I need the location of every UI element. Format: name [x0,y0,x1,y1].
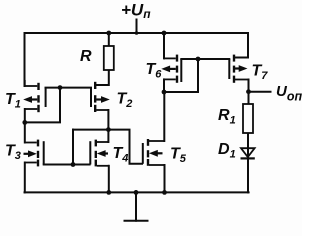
transistor T1 [23,80,45,112]
wire gate node down to T1 source node [25,88,60,123]
wire top rail +Un [25,32,249,34]
wire T3-T4 gate line [44,164,90,166]
wire T7 source down to output node [248,80,250,105]
node dot mirror T2 source [106,127,111,132]
wire T1-T2 gate line [46,87,92,89]
svg-text:T3: T3 [5,143,21,163]
svg-text:T5: T5 [170,146,187,166]
svg-text:R: R [80,48,92,65]
node dot ground rail [134,190,139,195]
wire T6 source down to node [163,79,165,92]
node dot T1 source column [22,120,27,125]
wire T5 source down to bottom rail [164,165,166,192]
wire T3 source down to bottom rail [24,163,26,193]
transistor T2 [91,82,110,112]
transistor T5 [143,139,165,166]
wire left rail [24,33,26,86]
wire gate riser [197,59,199,92]
wire gate line up to mirror node [72,130,74,165]
svg-text:T4: T4 [113,145,129,165]
node dot T5 source rail [162,190,167,195]
node dot R top [106,31,111,36]
transistor T3 [24,140,44,167]
wire T1 source to T3 drain [24,109,26,143]
wire T6 node to gate riser [164,91,198,93]
node dot T6 rail [162,31,167,36]
wire mirror node to T5 gate [73,130,142,164]
wire T5 drain up to T6 node [163,92,165,141]
svg-text:T2: T2 [117,91,133,111]
node dot gate line T1T2 [58,85,63,90]
svg-text:D1: D1 [218,141,236,161]
wire bottom rail [25,191,249,193]
transistor T7 [229,55,248,83]
node dot T3T4 gate line [71,162,76,167]
transistor T6 [161,55,181,83]
diode D1 [241,148,255,158]
node dot output [246,89,251,94]
wire R bottom to T2 drain [96,70,109,85]
wire T6-T7 gate line [181,58,229,60]
svg-text:Uоп: Uоп [276,83,302,104]
svg-text:T6: T6 [146,61,163,81]
ground [135,192,137,220]
wire T4 source to bottom rail [108,166,110,193]
node dot gate riser top [196,57,201,62]
svg-text:+Uп: +Uп [121,0,151,21]
resistor R1 [243,104,253,133]
svg-text:T7: T7 [252,63,269,83]
wire T7 drain from rail [235,33,248,58]
wire T2 source down to mirror node [107,110,109,142]
node dot T4 source rail [106,190,111,195]
node dot +Un stub [135,31,139,35]
svg-text:R1: R1 [218,107,236,127]
wire diode through to bottom rail [247,148,249,192]
wire output tap [249,91,271,93]
wire R top [108,33,110,46]
node dot T6 source node [162,90,167,95]
resistor R [104,46,114,70]
wire T6 drain up to rail [163,33,165,58]
wire R1 bottom to diode [247,133,249,148]
transistor T4 [90,140,109,167]
wire +Un stub [136,20,138,34]
svg-text:T1: T1 [5,91,21,111]
